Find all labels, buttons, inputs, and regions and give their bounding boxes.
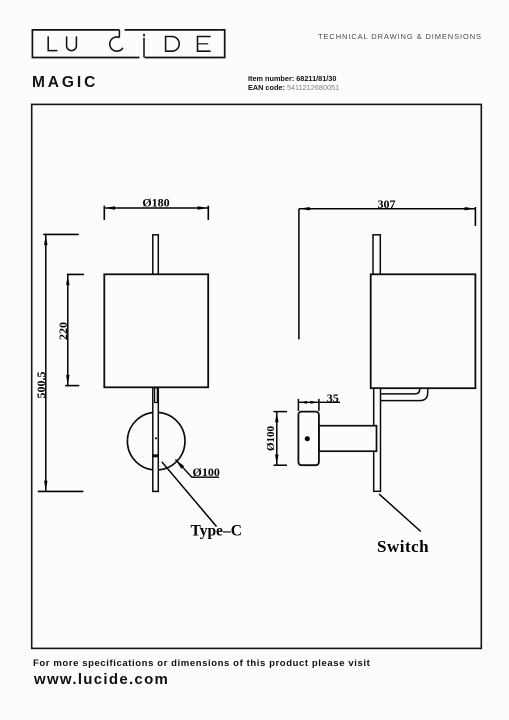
svg-text:220: 220: [56, 322, 70, 340]
header right text: [318, 32, 482, 41]
type-c port band on stem: [153, 454, 159, 457]
letter i dot: [143, 34, 145, 37]
svg-text:Ø100: Ø100: [265, 425, 277, 451]
dim 35 extension left: [297, 399, 299, 411]
svg-text:Ø100: Ø100: [193, 465, 220, 479]
svg-text:35: 35: [327, 391, 339, 405]
svg-text:500.5: 500.5: [34, 372, 48, 399]
arrow 220 top: [66, 274, 69, 285]
dim 35 line with tail: [298, 401, 340, 403]
leader Type-C: [162, 462, 217, 527]
dim 500.5 vertical line: [45, 234, 47, 491]
extension tick Ø100 side top: [274, 411, 288, 413]
pipe arm to shade upper line: [380, 388, 420, 394]
extension line 500.5 bottom: [38, 490, 84, 492]
lamp shade (side): [371, 274, 476, 388]
arrow 500.5 bottom: [44, 481, 47, 492]
inner tube below shade (front): [155, 388, 158, 403]
footer line 2 www.lucide.com: [34, 671, 169, 688]
extension line 307 left (long, to wall): [298, 209, 300, 340]
extension tick Ø180 left: [103, 206, 105, 220]
connector C to frame: [118, 30, 120, 37]
wall plate (side): [298, 412, 319, 466]
arrow 35 right: [310, 401, 319, 404]
arrow 307 right: [465, 207, 476, 210]
dim line 307: [299, 208, 475, 210]
arrow Ø100 side bottom: [275, 455, 278, 466]
wall plate screw dot: [305, 436, 310, 441]
arrow Ø180 left: [104, 206, 115, 209]
letter C: [110, 37, 123, 51]
svg-text:Switch: Switch: [377, 537, 429, 556]
stem top segment (front): [153, 235, 159, 274]
Lucide logo: [0, 0, 260, 70]
arrow 500.5 top: [44, 234, 47, 245]
dim 220 vertical line: [67, 274, 69, 385]
mounting arm (side): [319, 426, 377, 452]
extension line 220 top: [67, 273, 84, 275]
center dot of wall plate: [155, 437, 157, 439]
arrow Ø180 right: [198, 206, 209, 209]
extension line 500.5 top: [43, 233, 79, 235]
stem bottom segment (side): [374, 388, 381, 491]
arrow 220 bottom: [66, 375, 69, 386]
product name MAGIC: [32, 74, 98, 92]
dim line Ø180: [104, 207, 208, 209]
arrow Ø100 side top: [275, 412, 278, 423]
svg-text:Type–C: Type–C: [191, 522, 242, 539]
extension line 220 bottom: [65, 385, 79, 387]
wall plate circle: [127, 412, 185, 470]
leader Ø100 arrow: [176, 460, 185, 469]
extension tick Ø180 right: [207, 206, 209, 220]
arrow 307 left: [299, 207, 310, 210]
drawing frame box: [32, 104, 482, 648]
dim Ø100 (side) vertical line: [276, 412, 278, 466]
letter E: [198, 37, 211, 52]
letter U: [67, 36, 77, 50]
logo frame with gaps: [32, 30, 139, 58]
pipe arm to shade lower line: [374, 388, 428, 400]
leader Switch: [379, 494, 421, 532]
leader Ø100 (front) line: [176, 460, 220, 478]
letter D: [166, 37, 180, 52]
footer line 1: [33, 658, 370, 669]
letter i stem: [143, 38, 145, 58]
letter L: [48, 36, 57, 50]
stem bottom segment (front): [153, 388, 159, 492]
dim 35 extension right: [318, 399, 320, 411]
stem top segment (side): [373, 235, 380, 274]
arrow 35 left: [298, 401, 307, 404]
item number block: [248, 74, 339, 92]
extension tick 307 right: [474, 207, 476, 226]
extension tick Ø100 side bottom: [274, 464, 288, 466]
lamp shade (front): [104, 274, 208, 387]
